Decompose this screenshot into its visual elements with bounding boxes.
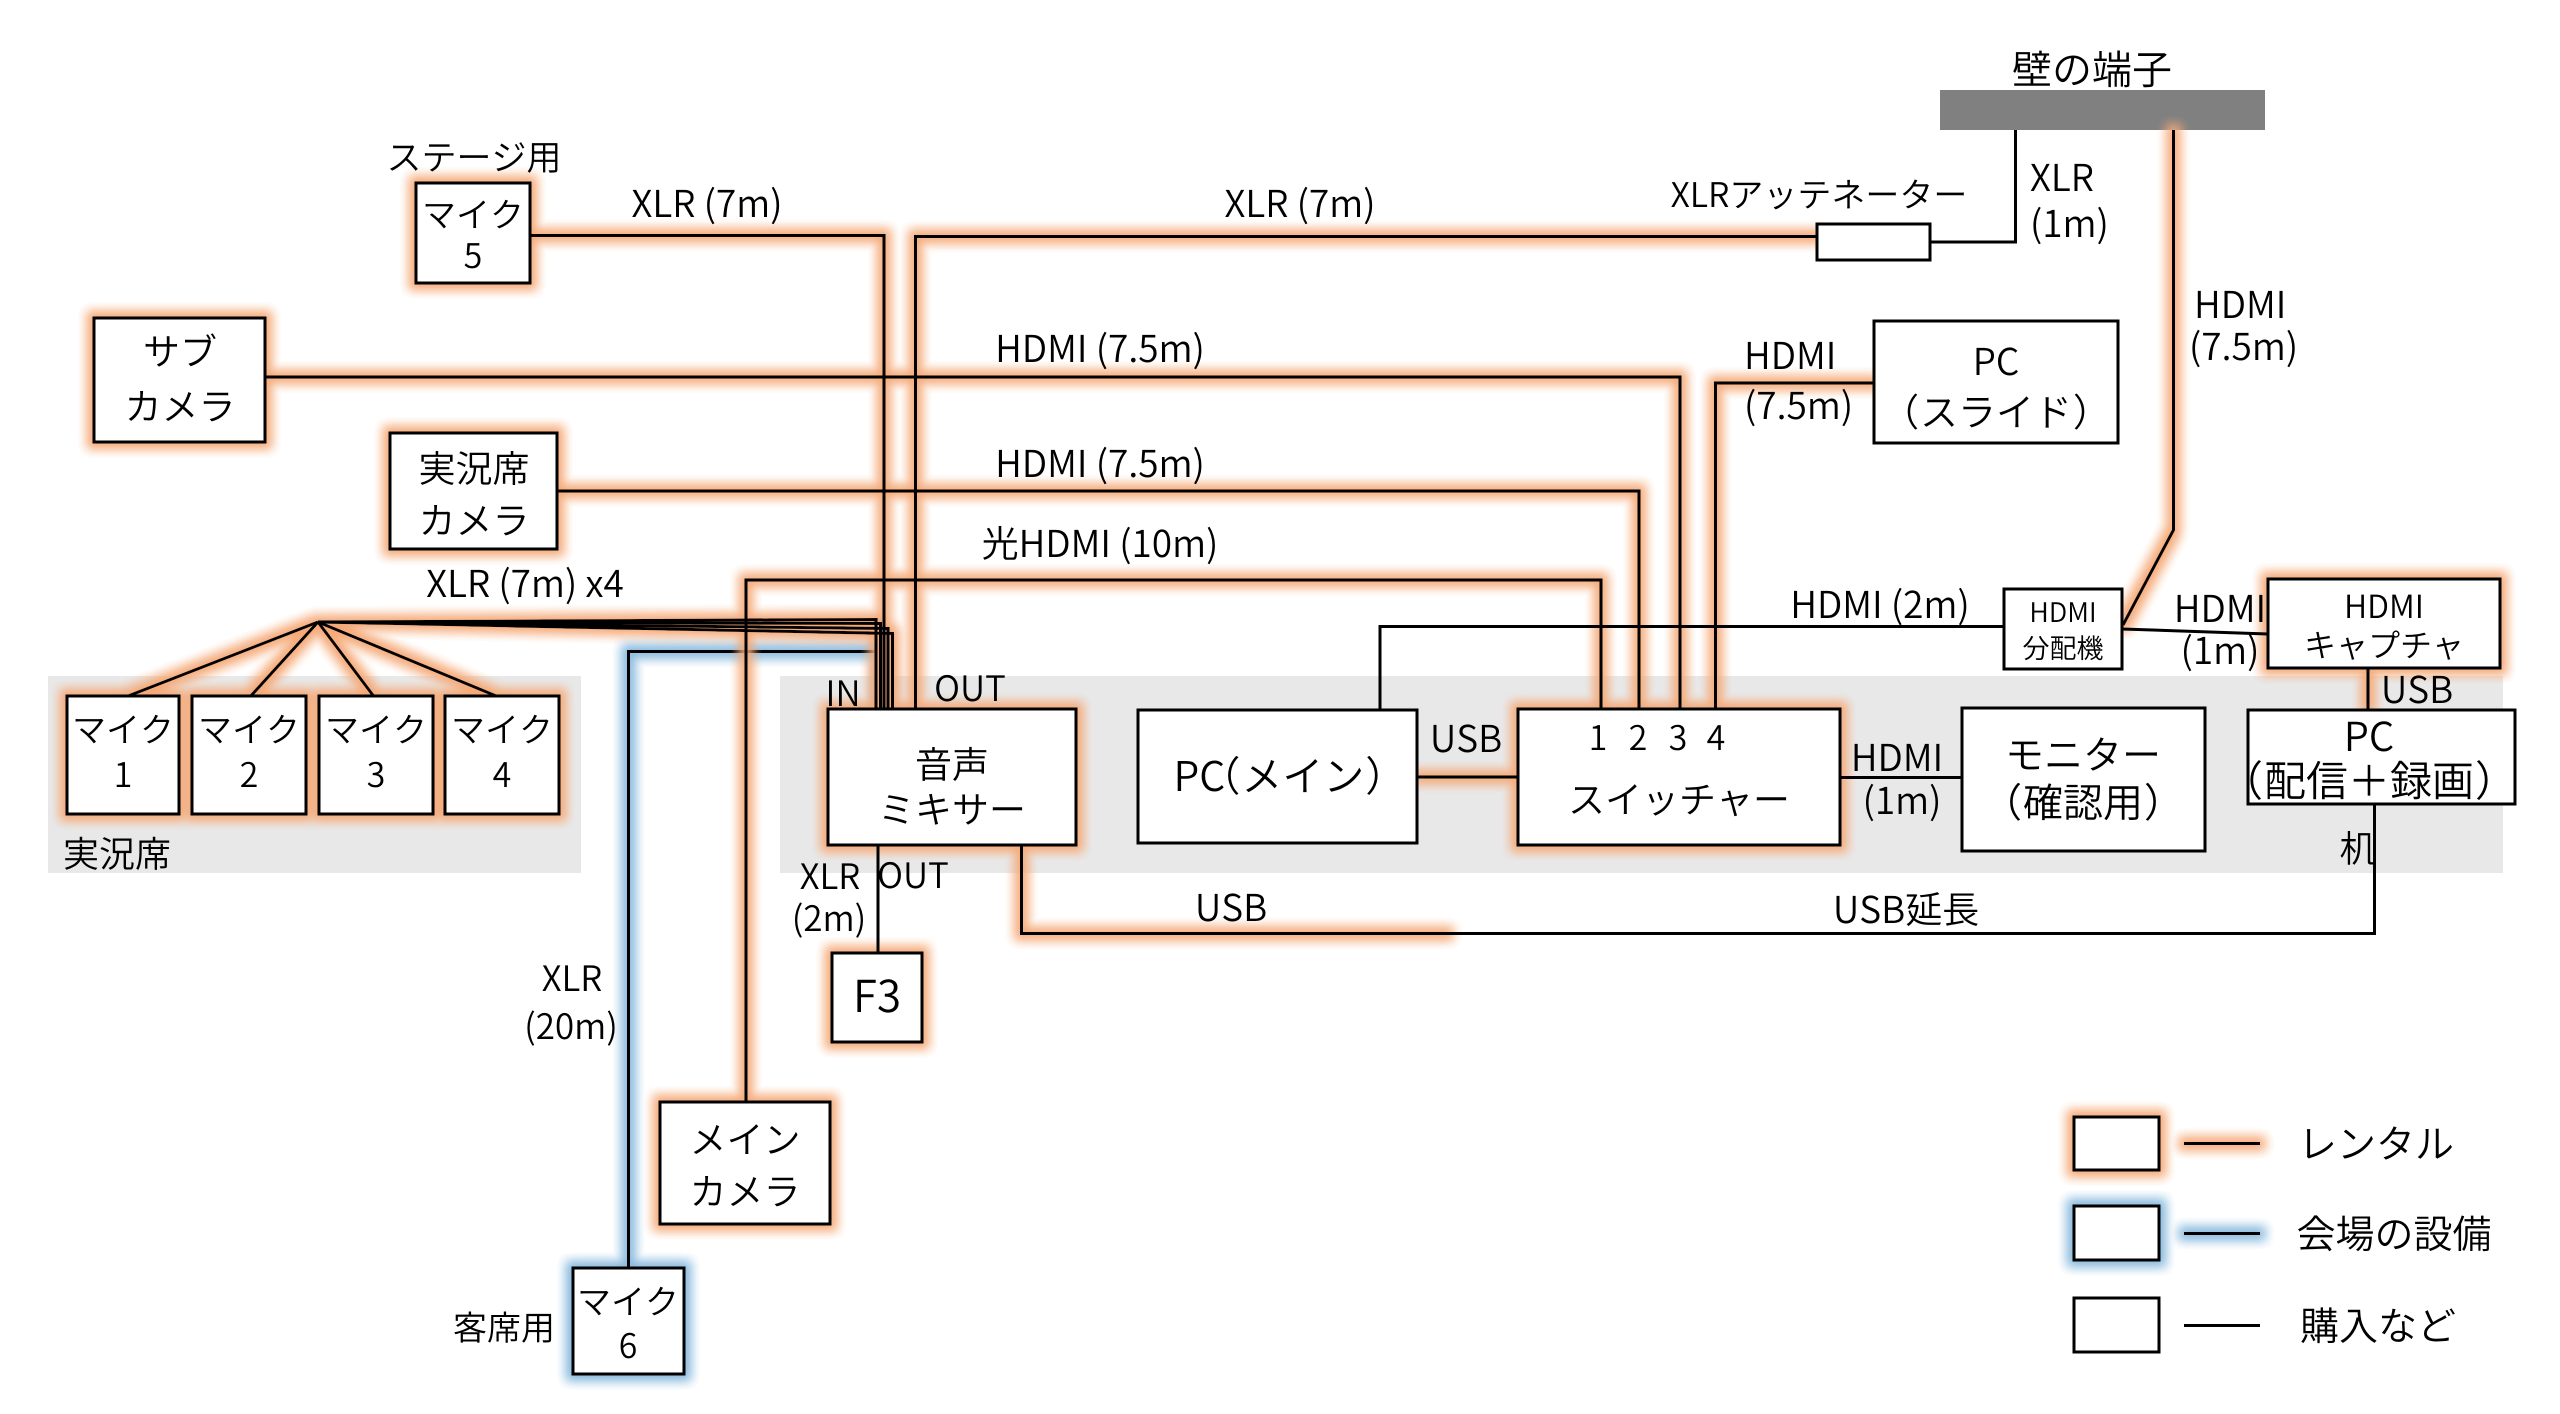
label mic1 text xyxy=(76,715,170,744)
label HDMI (1m) monitor line2 xyxy=(1866,784,1938,821)
label legend 会場の設備 xyxy=(2298,1215,2490,1251)
legend line venue equipment xyxy=(2184,1232,2260,1235)
label main camera line1 xyxy=(694,1124,798,1154)
label mic4 number xyxy=(493,762,510,787)
label legend レンタル xyxy=(2307,1126,2452,1159)
wire HDMI (2m) PC main to splitter xyxy=(1380,627,2004,711)
label XLRアッテネーター xyxy=(1671,180,1964,210)
wire XLR fan to mic1 xyxy=(123,622,318,698)
block audio mixer 音声ミキサー xyxy=(828,709,1076,845)
wire USB capture to PC stream xyxy=(2367,668,2370,710)
block mic4 マイク4 xyxy=(445,696,559,814)
label PC slide line1 xyxy=(1977,347,2018,375)
label USB延長 xyxy=(1837,892,1978,926)
label OUT bottom xyxy=(879,862,948,889)
label mic2 text xyxy=(202,715,296,744)
label PC slide line2 xyxy=(1908,394,2085,430)
label mic4 text xyxy=(455,715,549,744)
label XLR (7m) x4 xyxy=(427,567,623,604)
label IN xyxy=(829,680,857,706)
label PC stream line1 xyxy=(2348,721,2393,751)
label wall HDMI line1 xyxy=(2198,291,2283,318)
label 光HDMI (10m) xyxy=(983,526,1215,564)
block F3 recorder xyxy=(832,953,922,1042)
label XLR (2m) line2 xyxy=(795,902,863,937)
block mic1 マイク1 xyxy=(67,696,179,814)
block PC main PC（メイン） xyxy=(1138,710,1417,843)
label XLR (20m) line2 xyxy=(527,1010,614,1045)
label switcher input 1 xyxy=(1592,725,1605,750)
legend line purchase xyxy=(2184,1324,2260,1327)
wire USB extension to PC stream xyxy=(1448,804,2375,934)
label switcher input 2 xyxy=(1630,725,1646,750)
label capture line2 xyxy=(2308,631,2460,660)
wire XLR (7m) mic5 to mixer IN xyxy=(530,236,884,713)
label HDMI (1m) splitter line1 xyxy=(2178,595,2263,622)
label OUT top xyxy=(936,675,1005,702)
wire XLR (7m) x4 line c xyxy=(318,622,888,712)
wire HDMI (1m) switcher to monitor xyxy=(1840,776,1962,779)
label switcher input 3 xyxy=(1670,725,1686,751)
label HDMI (1m) monitor line1 xyxy=(1855,744,1940,771)
block mic2 マイク2 xyxy=(192,696,306,814)
wire USB mixer to extension xyxy=(1022,845,1449,934)
label XLR (2m) line1 xyxy=(800,863,859,889)
label wall HDMI line2 xyxy=(2192,330,2294,367)
block commentary camera 実況席カメラ xyxy=(390,433,557,549)
label commentary camera line1 xyxy=(421,451,528,485)
label XLR (1m) line2 xyxy=(2033,207,2105,244)
label 実況席 xyxy=(65,837,169,870)
label HDMI (2m) xyxy=(1794,588,1966,625)
label main camera line2 xyxy=(694,1176,796,1206)
wall terminal bar 壁の端子 xyxy=(1940,90,2265,130)
label mic5 text xyxy=(426,200,520,229)
label mic6 text xyxy=(581,1287,675,1316)
desk band 実況席 xyxy=(48,676,581,873)
block monitor モニター（確認用） xyxy=(1962,708,2205,851)
wire XLR (1m) attenuator to wall xyxy=(1930,130,2016,242)
block mic5 マイク5 xyxy=(416,183,530,283)
legend line rental xyxy=(2184,1142,2260,1145)
label switcher input 4 xyxy=(1707,725,1724,750)
block mic6 マイク6 xyxy=(573,1268,684,1374)
block mic3 マイク3 xyxy=(319,696,433,814)
label mic6 number xyxy=(621,1333,636,1359)
label XLR (20m) line1 xyxy=(542,965,601,991)
wire HDMI (7.5m) wall to splitter xyxy=(2123,130,2174,625)
label mixer line2 xyxy=(884,794,1022,825)
label XLR (1m) line1 xyxy=(2031,164,2093,191)
label splitter line1 xyxy=(2032,602,2094,622)
label mic1 number xyxy=(117,762,130,787)
wire HDMI (7.5m) commentary camera to switcher input 2 xyxy=(557,491,1639,712)
block XLR attenuator XLRアッテネーター xyxy=(1817,224,1930,260)
label USB capture xyxy=(2385,675,2452,703)
label HDMI (7.5m) slide line1 xyxy=(1748,342,1833,369)
desk band 机 xyxy=(780,676,2503,873)
wire XLR (7m) x4 line a xyxy=(318,620,876,713)
wire USB PC main to switcher xyxy=(1417,776,1518,779)
label mic5 number xyxy=(465,243,481,268)
label splitter line2 xyxy=(2023,635,2102,660)
label mic3 number xyxy=(368,762,384,788)
wire XLR (7m) x4 line d xyxy=(318,622,893,712)
wire XLR (7m) mixer OUT to attenuator xyxy=(916,237,1818,713)
label PC stream line2 xyxy=(2250,760,2487,800)
label mic3 text xyxy=(329,715,423,744)
label mixer line1 xyxy=(917,747,986,781)
label 客席用 xyxy=(454,1312,551,1343)
block PC stream+record PC（配信+録画） xyxy=(2248,710,2515,804)
wire XLR fan to mic4 xyxy=(318,622,501,698)
wire optical HDMI (10m) main camera to switcher input 1 xyxy=(746,580,1601,1102)
wire HDMI (7.5m) PC slide to switcher input 4 xyxy=(1716,383,1875,712)
block sub camera サブカメラ xyxy=(94,318,265,442)
legend box venue equipment 会場の設備 xyxy=(2074,1206,2159,1260)
label 机 xyxy=(2341,831,2376,865)
label monitor line2 xyxy=(2010,783,2156,821)
label 壁の端子 xyxy=(2013,51,2170,88)
label F3 xyxy=(857,979,898,1012)
label sub camera line1 xyxy=(146,333,216,366)
label legend 購入など xyxy=(2301,1307,2455,1343)
wire XLR (7m) x4 line b xyxy=(318,622,881,712)
wire XLR (20m) mic6 to mixer IN xyxy=(629,652,882,1269)
label ステージ用 xyxy=(390,142,557,173)
legend box purchase 購入など xyxy=(2074,1298,2159,1352)
block switcher スイッチャー xyxy=(1518,709,1840,845)
label HDMI (1m) splitter line2 xyxy=(2184,634,2256,671)
label USB mixer xyxy=(1199,893,1266,921)
label capture line1 xyxy=(2347,595,2420,618)
label PC main xyxy=(1178,756,1378,795)
legend box rental レンタル xyxy=(2074,1117,2159,1170)
label mic2 number xyxy=(241,762,257,787)
block HDMI splitter HDMI分配機 xyxy=(2004,589,2122,669)
label monitor line1 xyxy=(2010,737,2157,770)
label XLR (7m) mic5 xyxy=(632,187,779,224)
block main camera メインカメラ xyxy=(660,1102,830,1224)
label XLR (7m) out xyxy=(1225,187,1372,224)
block PC slide PC（スライド） xyxy=(1874,321,2118,443)
wire XLR fan to mic2 xyxy=(249,622,318,698)
label switcher text xyxy=(1572,784,1786,816)
label sub camera line2 xyxy=(129,391,231,421)
wire HDMI (7.5m) sub camera to switcher input 3 xyxy=(265,377,1680,712)
label commentary camera line2 xyxy=(423,505,525,535)
label HDMI (7.5m) slide line2 xyxy=(1747,389,1849,426)
wire XLR (2m) mixer to F3 xyxy=(877,845,880,953)
label HDMI (7.5m) commentary xyxy=(999,447,1202,484)
block HDMI capture HDMIキャプチャ xyxy=(2268,579,2500,668)
wire HDMI (1m) splitter to capture xyxy=(2122,629,2268,634)
label USB pc-switcher xyxy=(1434,724,1501,752)
wire XLR fan to mic3 xyxy=(318,622,375,698)
label HDMI (7.5m) sub xyxy=(999,332,1202,369)
